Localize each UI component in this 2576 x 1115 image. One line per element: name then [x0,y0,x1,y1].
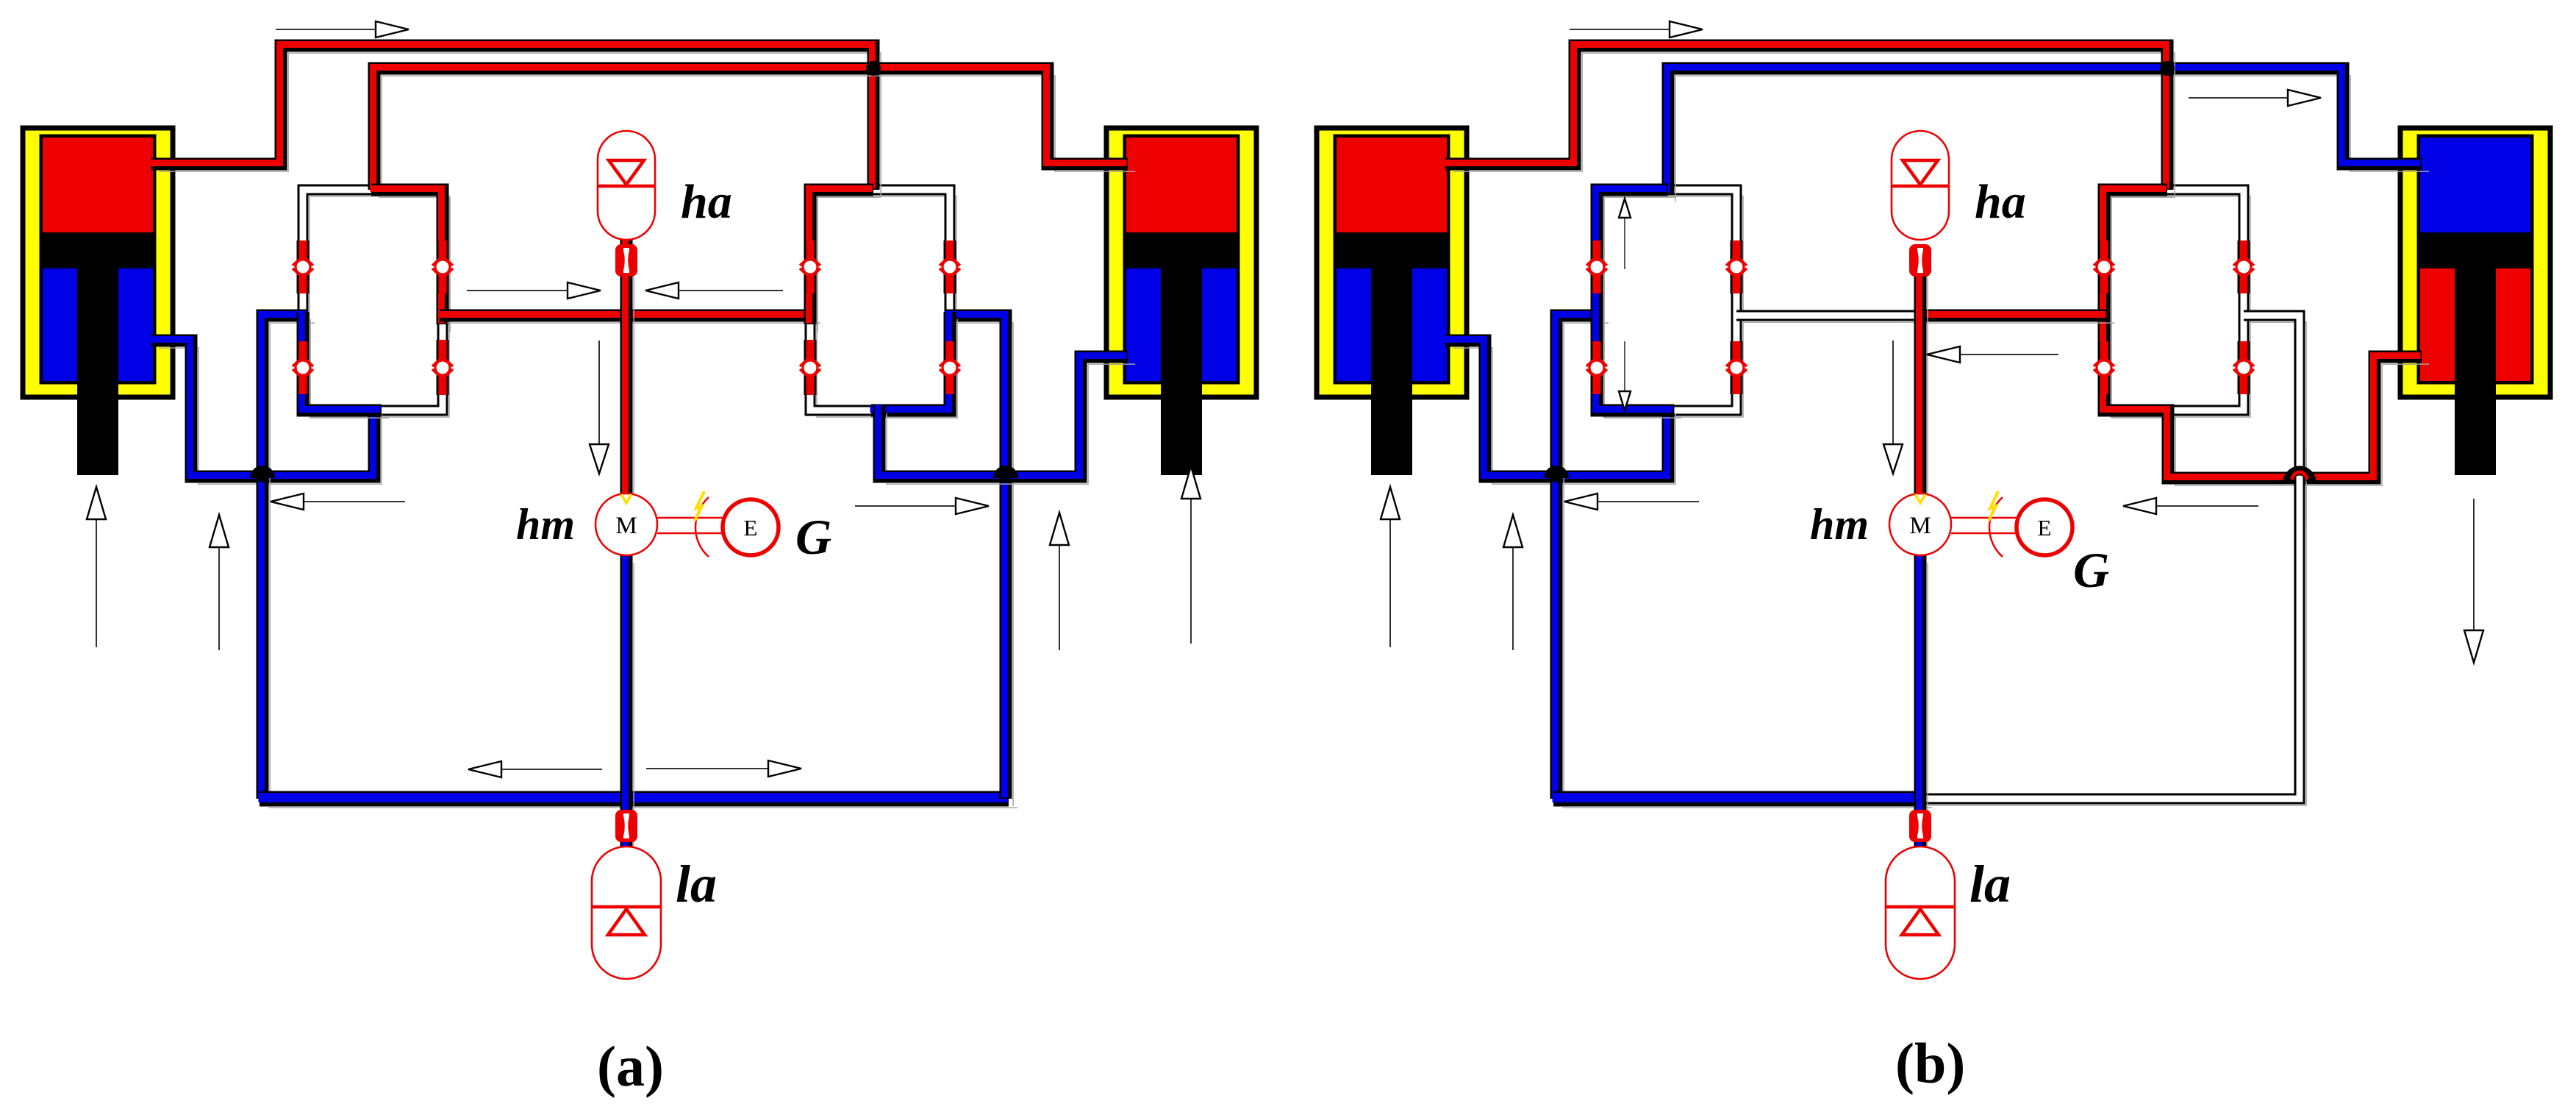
svg-text:M: M [615,513,637,539]
svg-text:la: la [676,855,717,913]
svg-text:G: G [2073,542,2109,598]
svg-text:(b): (b) [1895,1031,1965,1095]
svg-text:hm: hm [516,500,575,549]
svg-text:ha: ha [681,175,732,229]
svg-text:G: G [795,509,831,565]
svg-text:(a): (a) [597,1034,664,1098]
svg-text:E: E [744,515,758,541]
svg-text:M: M [1909,513,1931,539]
svg-text:hm: hm [1810,500,1869,549]
svg-text:E: E [2038,515,2052,541]
svg-text:ha: ha [1975,175,2026,229]
svg-text:la: la [1969,855,2011,913]
